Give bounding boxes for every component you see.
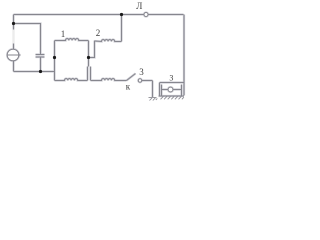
- core line pass: [7, 13, 184, 98]
- node dot loop1 right: [87, 56, 90, 59]
- ground hatch ticks under box: [161, 96, 164, 99]
- svg-text:Л: Л: [136, 1, 142, 11]
- node dot loop1 left: [53, 56, 56, 59]
- svg-text:2: 2: [96, 28, 101, 38]
- ground hatch ticks left: [150, 98, 153, 101]
- ground bar at wire drop: [149, 97, 157, 99]
- svg-text:3: 3: [169, 74, 173, 83]
- svg-text:к: к: [126, 82, 131, 92]
- node dot top rail: [120, 13, 123, 16]
- svg-text:1: 1: [61, 29, 66, 39]
- node dot generator branch: [12, 22, 15, 25]
- soft halo pass: [7, 13, 184, 98]
- svg-text:3: 3: [139, 67, 144, 77]
- node dot capacitor bottom: [39, 70, 42, 73]
